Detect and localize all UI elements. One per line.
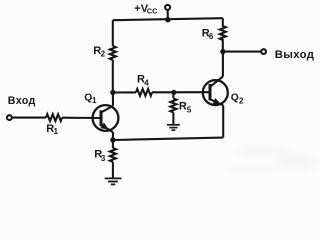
R6 label (202, 28, 214, 42)
wire Vcc stub (167, 10, 169, 20)
svg-text:6: 6 (209, 32, 214, 41)
Q2 label (231, 92, 244, 105)
faint scan smudges (paper artifacts) (222, 144, 318, 176)
node Vcc junction (165, 17, 170, 22)
R1 label (46, 123, 58, 136)
node output (220, 49, 225, 54)
wire Q1 collector up (112, 93, 114, 106)
wire R3 to ground (112, 162, 114, 178)
resistor R4 (136, 89, 152, 96)
+Vcc label (134, 3, 158, 16)
svg-text:Q: Q (231, 92, 239, 103)
svg-text:Выход: Выход (275, 49, 314, 61)
R3 label (94, 148, 106, 163)
Q1 label (84, 92, 97, 104)
svg-text:3: 3 (101, 154, 106, 163)
svg-text:2: 2 (239, 96, 244, 105)
output terminal (261, 49, 266, 54)
wire output node to Q2 collector (222, 52, 224, 77)
resistor R3 (110, 148, 116, 162)
svg-text:Вход: Вход (8, 95, 36, 107)
transistor Q1 (93, 105, 119, 132)
wire left branch lower (112, 60, 114, 93)
svg-text:CC: CC (147, 7, 158, 16)
wire Q1 emitter down (112, 132, 114, 140)
wire top rail (113, 18, 223, 20)
resistor R2 (110, 46, 116, 60)
Vcc terminal (165, 5, 170, 10)
resistor R6 (220, 18, 226, 51)
wire bottom rail (113, 138, 223, 140)
svg-text:1: 1 (92, 96, 97, 105)
node B (171, 90, 176, 95)
wire node B to R5 (172, 92, 174, 98)
wire Q2 emitter down (222, 105, 224, 137)
svg-text:R: R (179, 101, 187, 113)
wire R5 to ground (172, 112, 174, 124)
wire emitter junction to R3 (112, 140, 114, 148)
input terminal (7, 115, 12, 120)
svg-text:2: 2 (101, 49, 106, 58)
wire input to R1 (12, 117, 46, 119)
R2 label (93, 45, 105, 59)
node emitter junction (110, 137, 115, 142)
transistor Q2 (203, 77, 228, 108)
wire left branch upper (112, 20, 114, 46)
R5 label (179, 101, 192, 115)
wire output (223, 51, 261, 53)
resistor R1 (46, 114, 62, 121)
wire node A to R4 (113, 91, 136, 93)
svg-text:Q: Q (84, 92, 92, 103)
node A collector of Q1 (110, 90, 115, 95)
R4 label (137, 73, 149, 87)
wire R4 to Q2 base (152, 91, 210, 93)
svg-text:5: 5 (187, 106, 192, 115)
svg-text:1: 1 (54, 127, 59, 136)
ground below R5 (167, 125, 180, 130)
input label (8, 95, 36, 107)
output label (275, 49, 314, 61)
resistor R5 (170, 99, 176, 113)
wire R1 to Q1 base (62, 117, 101, 119)
ground below R3 (105, 178, 122, 184)
svg-text:4: 4 (144, 78, 149, 87)
